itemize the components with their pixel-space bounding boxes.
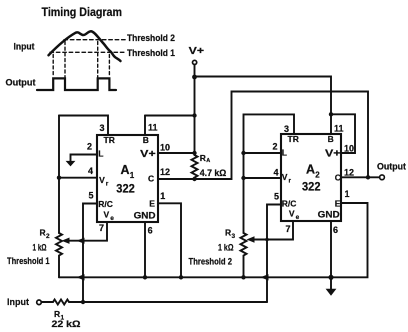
- svg-text:V+: V+: [189, 45, 204, 57]
- svg-text:2: 2: [315, 170, 320, 179]
- svg-text:Threshold 2: Threshold 2: [127, 33, 175, 43]
- svg-text:1: 1: [130, 171, 135, 180]
- svg-text:7: 7: [99, 223, 104, 233]
- svg-text:R/C: R/C: [282, 199, 297, 209]
- svg-text:6: 6: [148, 226, 153, 236]
- svg-text:12: 12: [344, 168, 354, 178]
- svg-text:4: 4: [274, 168, 279, 178]
- svg-text:V: V: [104, 210, 110, 220]
- svg-text:22 kΩ: 22 kΩ: [52, 319, 81, 329]
- svg-text:6: 6: [333, 225, 338, 235]
- svg-text:1: 1: [345, 189, 350, 199]
- svg-text:B: B: [143, 135, 149, 145]
- svg-text:2: 2: [273, 142, 278, 152]
- svg-text:TR: TR: [288, 134, 299, 144]
- svg-text:5: 5: [274, 192, 279, 202]
- svg-text:Threshold 2: Threshold 2: [189, 257, 233, 267]
- svg-text:R: R: [225, 228, 231, 238]
- svg-text:V+: V+: [140, 148, 156, 160]
- svg-text:4.7 kΩ: 4.7 kΩ: [200, 168, 227, 178]
- svg-text:3: 3: [100, 123, 105, 133]
- svg-text:GND: GND: [134, 211, 156, 222]
- svg-text:A: A: [121, 163, 130, 177]
- svg-text:1 kΩ: 1 kΩ: [218, 243, 234, 253]
- svg-text:TR: TR: [104, 135, 115, 145]
- svg-text:A: A: [306, 163, 315, 177]
- svg-text:R: R: [200, 153, 206, 163]
- svg-text:V: V: [289, 209, 295, 219]
- svg-text:B: B: [328, 134, 334, 144]
- svg-text:R: R: [54, 309, 60, 319]
- svg-text:12: 12: [160, 167, 170, 177]
- svg-text:R: R: [40, 228, 46, 238]
- svg-text:L: L: [98, 149, 103, 159]
- svg-text:Threshold 1: Threshold 1: [127, 48, 175, 58]
- svg-text:322: 322: [302, 182, 321, 194]
- svg-text:L: L: [282, 148, 287, 158]
- svg-text:10: 10: [160, 143, 170, 153]
- svg-text:7: 7: [286, 224, 291, 234]
- svg-text:V+: V+: [325, 148, 341, 160]
- svg-text:C: C: [335, 173, 341, 183]
- svg-text:Timing Diagram: Timing Diagram: [42, 7, 123, 19]
- svg-text:e: e: [110, 215, 114, 222]
- svg-text:10: 10: [344, 144, 354, 154]
- svg-text:2: 2: [46, 233, 50, 240]
- svg-text:11: 11: [334, 124, 344, 134]
- svg-text:1: 1: [160, 191, 165, 201]
- svg-text:Output: Output: [6, 78, 36, 88]
- svg-text:V: V: [282, 172, 288, 182]
- svg-text:e: e: [296, 214, 300, 221]
- svg-text:Input: Input: [7, 297, 29, 307]
- svg-text:E: E: [335, 199, 341, 209]
- svg-text:V: V: [99, 175, 105, 185]
- svg-text:Threshold 1: Threshold 1: [7, 256, 50, 266]
- svg-text:3: 3: [232, 233, 236, 240]
- svg-text:GND: GND: [318, 210, 340, 221]
- svg-text:R/C: R/C: [98, 199, 113, 209]
- svg-text:C: C: [148, 174, 154, 184]
- svg-text:3: 3: [284, 124, 289, 134]
- svg-text:Output: Output: [377, 162, 406, 172]
- svg-text:5: 5: [89, 191, 94, 201]
- svg-text:2: 2: [87, 142, 92, 152]
- svg-text:E: E: [149, 199, 155, 209]
- svg-text:1 kΩ: 1 kΩ: [33, 243, 47, 253]
- svg-text:4: 4: [88, 166, 93, 176]
- svg-text:11: 11: [148, 123, 158, 133]
- svg-text:A: A: [206, 158, 210, 164]
- svg-text:Input: Input: [14, 42, 35, 52]
- svg-text:322: 322: [116, 184, 135, 196]
